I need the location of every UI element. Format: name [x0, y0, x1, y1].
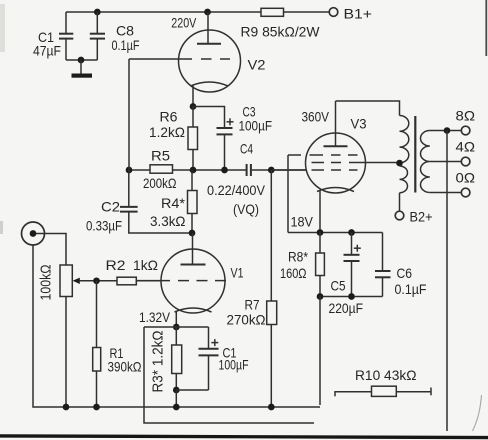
node C5 bottom junction [348, 293, 355, 300]
resistor R7 [227, 170, 277, 407]
svg-text:C2: C2 [101, 200, 120, 215]
node R6/R4 bus junction [190, 167, 197, 174]
wire V3 cathode bus [288, 232, 383, 234]
wire V1 cathode node [144, 326, 209, 328]
node V2 plate junction [204, 9, 211, 16]
svg-text:R9 85kΩ/2W: R9 85kΩ/2W [241, 25, 320, 40]
capacitor C1 [33, 12, 73, 60]
svg-text:R8*: R8* [288, 250, 309, 265]
wire V3 suppressor drop [287, 155, 289, 233]
potentiometer 100k [38, 265, 118, 301]
wire V2 grid riser [128, 59, 130, 170]
svg-text:R10 43kΩ: R10 43kΩ [355, 368, 417, 383]
svg-text:V1: V1 [231, 266, 244, 281]
node pot ground junction [63, 404, 70, 411]
triode V1 [136, 233, 243, 327]
svg-text:100µF: 100µF [219, 358, 249, 373]
capacitor C2 [86, 170, 192, 234]
transformer secondary [420, 131, 429, 193]
terminal B1+ [329, 7, 372, 23]
wire 4ohm tap [430, 161, 462, 163]
svg-text:390kΩ: 390kΩ [108, 360, 142, 375]
svg-text:C4: C4 [240, 142, 253, 157]
node R8 bottom junction [317, 293, 324, 300]
node V1 plate junction [189, 230, 196, 237]
svg-text:220µF: 220µF [329, 301, 364, 316]
resistor R4 [150, 170, 197, 233]
node C4 right junction [268, 167, 275, 174]
svg-text:360V: 360V [302, 110, 330, 125]
wire cathode circuit to ground bus [319, 297, 321, 406]
wire R3/C1 bottom [176, 389, 208, 391]
node R3 bottom junction [173, 387, 180, 394]
terminal 0ohm [456, 171, 476, 197]
svg-text:8Ω: 8Ω [456, 109, 476, 124]
node V1 cathode junction [173, 324, 180, 331]
node R5 left junction [126, 167, 133, 174]
svg-text:V3: V3 [351, 117, 367, 132]
capacitor C8 [90, 12, 140, 60]
wire primary to B2+ [399, 193, 401, 211]
svg-text:1.2kΩ: 1.2kΩ [149, 125, 185, 140]
node C1/C8 bottom junction [78, 57, 85, 64]
svg-text:3.3kΩ: 3.3kΩ [150, 214, 186, 229]
svg-text:0.1µF: 0.1µF [395, 282, 427, 297]
svg-text:0Ω: 0Ω [456, 171, 476, 186]
svg-text:R3* 1.2kΩ: R3* 1.2kΩ [150, 331, 167, 393]
svg-text:R4*: R4* [161, 196, 186, 211]
svg-text:220V: 220V [171, 15, 197, 30]
resistor R9 [241, 8, 320, 39]
svg-text:160Ω: 160Ω [280, 266, 307, 281]
svg-text:B2+: B2+ [410, 210, 433, 226]
wire V3 plate to transformer [336, 101, 400, 116]
svg-text:R5: R5 [151, 149, 170, 164]
svg-text:C5: C5 [331, 279, 346, 294]
ground [72, 60, 93, 78]
node V3 cathode junction [317, 229, 324, 236]
svg-text:C8: C8 [116, 24, 134, 39]
terminal 4ohm [456, 140, 476, 166]
wire V2 cathode to C3 [193, 107, 225, 128]
scan artifact left mark [0, 221, 3, 234]
wire top B+ rail [66, 11, 329, 13]
svg-text:0.33µF: 0.33µF [86, 219, 122, 234]
svg-text:270kΩ: 270kΩ [227, 313, 266, 328]
resistor R5 [143, 149, 177, 192]
resistor R10 [335, 368, 431, 396]
resistor R2 [106, 258, 162, 285]
wire R8/C5/C6 bottom [320, 296, 383, 298]
pentode V3 [271, 101, 399, 233]
input jack [22, 222, 45, 245]
resistor R3 [150, 327, 182, 393]
svg-text:R6: R6 [160, 110, 178, 125]
scan artifact left strip [0, 4, 5, 52]
svg-text:0.1µF: 0.1µF [112, 38, 140, 53]
capacitor C1 cathode [199, 327, 249, 390]
wire pot bottom to ground bus [65, 297, 67, 408]
svg-text:47µF: 47µF [33, 44, 61, 59]
svg-text:4Ω: 4Ω [456, 140, 476, 155]
node R1 ground junction [93, 404, 100, 411]
resistor R6 [149, 107, 198, 171]
triode V2 [129, 12, 266, 107]
svg-text:R2: R2 [106, 258, 126, 273]
wire mid bus [129, 169, 247, 171]
svg-text:200kΩ: 200kΩ [143, 176, 177, 191]
wire C1-C8 bottom [66, 59, 97, 61]
node C3 bus junction [221, 167, 228, 174]
scan artifact bottom-right curl [473, 395, 482, 431]
node C8 top junction [94, 9, 101, 16]
svg-text:18V: 18V [291, 215, 314, 230]
scan artifact bottom bar [0, 434, 488, 439]
node feedback tap junction [444, 127, 451, 134]
capacitor C4 [207, 142, 306, 218]
node wiper junction [93, 277, 100, 284]
node V2 cathode junction [190, 103, 197, 110]
wire 0ohm tap [430, 192, 462, 194]
svg-text:(VQ): (VQ) [233, 202, 259, 217]
node cathode circuit ground junction [173, 404, 180, 411]
svg-text:B1+: B1+ [344, 7, 373, 23]
transformer primary upper [400, 116, 409, 163]
svg-text:V2: V2 [248, 58, 266, 73]
transformer primary lower [400, 166, 408, 193]
resistor R1 [93, 281, 142, 407]
capacitor C5 [329, 233, 364, 317]
terminal B2+ [395, 210, 432, 226]
svg-text:1.32V: 1.32V [139, 310, 171, 325]
wire 8ohm tap [430, 130, 462, 132]
node UL tap junction [396, 160, 403, 167]
wire feedback line [446, 131, 448, 432]
svg-text:1kΩ: 1kΩ [133, 258, 158, 273]
svg-text:C3: C3 [243, 105, 256, 120]
transformer core [414, 116, 416, 193]
svg-text:R7: R7 [245, 298, 260, 313]
svg-text:100µF: 100µF [239, 119, 273, 134]
terminal 8ohm [456, 109, 476, 135]
resistor R8 [280, 233, 324, 297]
capacitor C6 [375, 233, 427, 298]
svg-text:100kΩ: 100kΩ [38, 265, 55, 301]
wire feedback drop to bus2 [144, 327, 314, 423]
wire jack shield to ground bus [33, 245, 320, 407]
capacitor C3 [217, 105, 273, 171]
svg-text:0.22/400V: 0.22/400V [207, 183, 266, 198]
node C5 top junction [348, 229, 355, 236]
wire jack to pot [36, 234, 66, 266]
node R7 ground junction [268, 404, 275, 411]
scan artifact right border [485, 0, 487, 56]
svg-text:C6: C6 [397, 266, 413, 281]
wire R3 node to ground bus [175, 390, 177, 407]
